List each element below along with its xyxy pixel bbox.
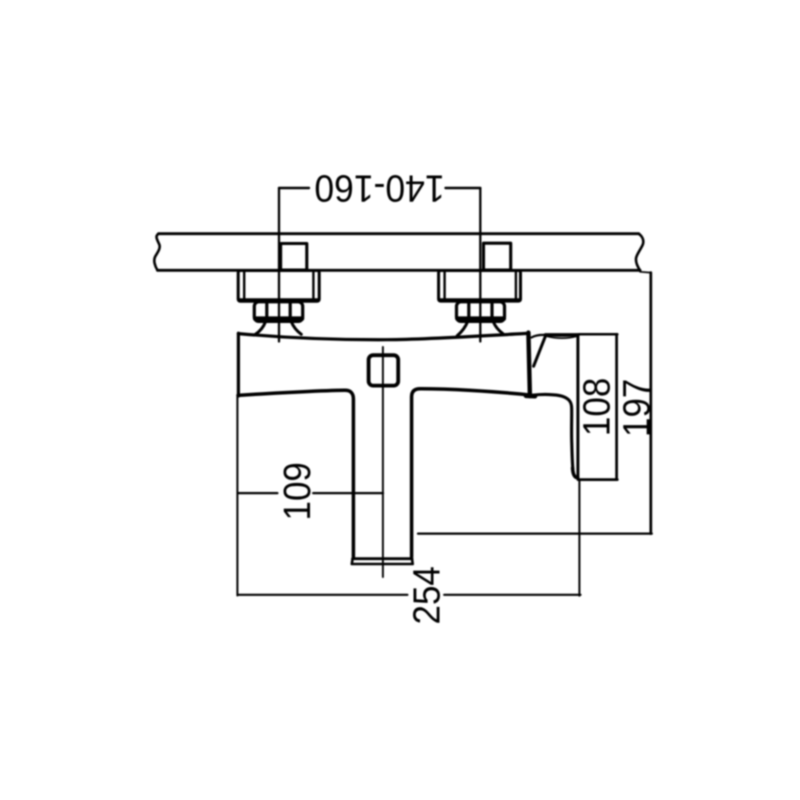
right fitting centerline	[479, 188, 481, 342]
spout cap bottom line	[352, 559, 413, 564]
dim line 140-160 right segment	[446, 187, 481, 189]
dim 108 bottom extension	[578, 478, 617, 481]
dim 254 line right segment	[444, 594, 580, 596]
body top edge	[238, 333, 527, 339]
wall left break	[154, 234, 159, 271]
dim 108 right line	[615, 334, 618, 479]
right escutcheon	[439, 271, 521, 302]
left nut	[254, 302, 302, 322]
dim 109 line right segment	[313, 492, 383, 494]
left fitting centerline	[278, 188, 280, 342]
diverter knob	[369, 355, 399, 385]
handle inner S-curve	[533, 394, 578, 477]
dim 254 line left segment	[238, 594, 408, 596]
dim line 140-160 left segment	[279, 187, 309, 189]
spout right edge + body bottom edge right	[412, 389, 527, 557]
left extension line	[236, 397, 238, 596]
handle right edge	[576, 335, 579, 478]
left escutcheon	[238, 271, 319, 302]
spout cap top line	[353, 557, 412, 560]
dim 108 top extension	[579, 333, 617, 336]
handle top under-arc	[547, 336, 577, 338]
right extension line to 254	[578, 480, 580, 596]
handle wedge diagonal	[534, 335, 546, 366]
svg-text:108: 108	[575, 378, 618, 436]
wall bottom line	[158, 269, 641, 272]
cartridge joint line	[528, 333, 530, 396]
right flare	[457, 322, 467, 336]
handle tip loop	[573, 468, 578, 478]
wall top line	[159, 232, 639, 235]
body bottom edge left + spout left edge	[238, 390, 353, 557]
dim 197 bottom extension	[418, 532, 652, 534]
left flare	[255, 322, 266, 335]
handle wedge arc	[532, 335, 546, 338]
dim 109 line left segment	[238, 492, 278, 494]
spout centerline	[382, 347, 384, 577]
body left edge	[237, 333, 240, 396]
joint bottom blob	[526, 393, 535, 398]
dim 197 vertical line	[649, 273, 652, 534]
right pipe square	[484, 243, 511, 270]
handle top edge	[546, 333, 578, 337]
left pipe square	[281, 244, 307, 271]
wall right break	[636, 234, 643, 271]
svg-text:140-160: 140-160	[314, 167, 444, 210]
svg-text:109: 109	[276, 462, 319, 520]
svg-text:197: 197	[615, 379, 658, 437]
svg-text:254: 254	[405, 566, 448, 624]
dim 197 top connector	[640, 271, 651, 274]
right nut	[457, 302, 505, 322]
